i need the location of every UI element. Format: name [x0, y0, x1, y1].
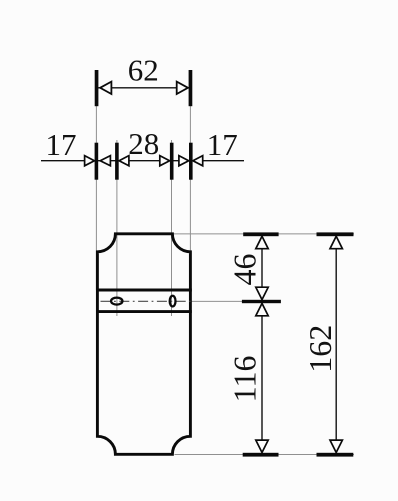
- arrow 162 down: [330, 440, 342, 452]
- dim bar middle: [242, 300, 281, 303]
- dim bar top col1: [243, 232, 278, 236]
- slot 1 (horizontal ellipse): [111, 298, 122, 305]
- dim line 46: [261, 237, 263, 300]
- dim bar row2 D: [189, 143, 193, 180]
- dim line 62: [97, 87, 191, 89]
- extension line slot1 center (x=116.9): [116, 140, 118, 316]
- band bottom line: [96, 310, 192, 313]
- svg-text:116: 116: [226, 355, 262, 402]
- extension line slot2 center (x=171.5): [171, 140, 173, 316]
- arrow at D left: [179, 156, 189, 166]
- centerline dash-dot: [101, 300, 191, 302]
- arrow 46 down: [256, 287, 268, 299]
- dim bar 62 left: [95, 70, 99, 106]
- extension line left edge (x=96.4): [95, 106, 97, 290]
- dim bar row2 B: [115, 143, 119, 180]
- svg-text:46: 46: [227, 254, 263, 286]
- extension line right edge (x=190.4): [189, 106, 191, 252]
- svg-text:28: 28: [128, 126, 159, 161]
- dim bar row2 C: [170, 143, 174, 180]
- dim bar bottom col1: [243, 453, 279, 457]
- dim line 162: [335, 237, 337, 453]
- arrow at A right: [100, 156, 110, 166]
- arrow at D right: [193, 156, 203, 166]
- arrow 46 up: [256, 236, 268, 248]
- dim bar bottom col2: [317, 453, 354, 457]
- band top line: [96, 289, 192, 292]
- arrow 17L outside: [85, 156, 95, 166]
- arrow 62 right: [177, 82, 188, 94]
- part outline: [97, 234, 190, 454]
- arrow at B right: [119, 156, 129, 166]
- extension line bottom (y=454.5): [175, 454, 355, 456]
- dim bar top col2: [317, 232, 354, 236]
- svg-text:17: 17: [46, 127, 77, 162]
- extension line middle (y=301.4): [192, 300, 243, 302]
- arrow 116 down: [256, 440, 268, 452]
- extension line top (y=233.9): [172, 233, 354, 235]
- arrow 116 up: [256, 303, 268, 315]
- dim line 17-28-17: [41, 160, 244, 162]
- dim bar 62 right: [189, 70, 193, 106]
- slot 2 (vertical ellipse): [170, 296, 176, 307]
- arrow 62 left: [100, 82, 111, 94]
- arrow 162 up: [330, 236, 342, 248]
- arrow at C left: [160, 156, 170, 166]
- dim line 116: [261, 303, 263, 452]
- svg-text:62: 62: [128, 52, 159, 87]
- svg-text:162: 162: [302, 325, 338, 373]
- svg-text:17: 17: [207, 127, 238, 162]
- dim bar row2 A: [95, 143, 99, 180]
